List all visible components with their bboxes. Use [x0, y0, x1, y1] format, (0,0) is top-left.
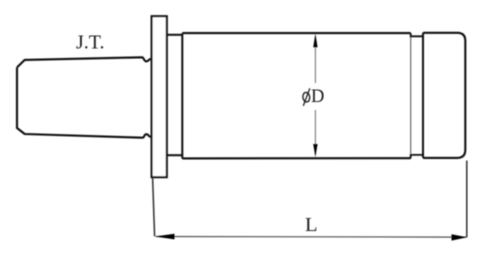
neck bottom line — [167, 154, 183, 156]
flange — [152, 16, 167, 177]
dimension phi-D line lower segment — [314, 110, 316, 155]
body left edge — [181, 33, 183, 158]
groove bottom step — [411, 155, 423, 158]
body bottom edge — [182, 157, 410, 159]
svg-text:D: D — [311, 87, 324, 107]
taper shank J.T. outline — [17, 67, 151, 137]
svg-text:L: L — [305, 214, 318, 236]
groove top step — [411, 33, 423, 37]
phi symbol of label phi-D — [302, 88, 310, 106]
L right extension line — [466, 161, 468, 238]
phi-D bottom arrowhead — [313, 144, 317, 157]
L right arrowhead — [452, 234, 468, 240]
dimension phi-D line upper segment — [314, 36, 316, 83]
L left arrowhead — [155, 234, 175, 240]
body top edge — [182, 32, 410, 34]
end cap outline — [423, 33, 465, 158]
taper shank top edge — [17, 57, 151, 67]
groove left wall — [410, 37, 412, 155]
L left extension line — [153, 178, 155, 237]
neck top line — [167, 34, 183, 36]
L dimension line — [156, 236, 466, 239]
phi-D top arrowhead — [313, 34, 317, 48]
groove right wall / cap left edge — [422, 34, 424, 158]
svg-text:J.T.: J.T. — [76, 31, 105, 53]
